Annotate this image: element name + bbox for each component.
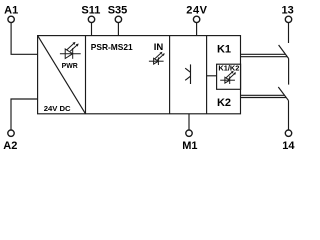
svg-text:PSR-MS21: PSR-MS21 (91, 42, 133, 52)
K2 linkage (lower) (241, 97, 287, 99)
terminal M1 (186, 130, 192, 136)
K1 linkage (upper) (241, 53, 286, 55)
terminal S35 (115, 16, 121, 22)
svg-text:M1: M1 (182, 140, 197, 152)
wire logic to inset box (207, 75, 217, 77)
terminal A1 (8, 16, 14, 22)
svg-text:PWR: PWR (62, 63, 78, 70)
wire between contacts (288, 59, 290, 85)
module outer box (38, 36, 241, 114)
divider logic/relay section (206, 36, 208, 114)
svg-text:S35: S35 (108, 5, 128, 17)
contact K2 blade (278, 87, 288, 101)
relay monitor inset box K1/K2 (217, 64, 241, 89)
wire M1 (188, 114, 190, 130)
wire A2 (11, 99, 38, 130)
wire S35 (117, 23, 119, 36)
wire A1 (11, 23, 37, 55)
svg-text:A1: A1 (4, 5, 18, 17)
svg-text:IN: IN (154, 42, 164, 53)
svg-text:K1/K2: K1/K2 (218, 64, 239, 73)
terminal A2 (8, 130, 14, 136)
terminal S11 (88, 16, 94, 22)
svg-text:24V DC: 24V DC (44, 104, 71, 113)
wire 14 (288, 101, 290, 130)
svg-text:K1: K1 (217, 43, 231, 55)
svg-text:K2: K2 (217, 97, 231, 109)
wire S11 (91, 23, 93, 36)
svg-text:14: 14 (282, 140, 295, 152)
K2 linkage (upper) (241, 94, 285, 96)
phototransistor symbol (185, 64, 190, 84)
LED K1/K2 (220, 71, 236, 84)
svg-text:24V: 24V (186, 5, 207, 17)
terminal 13 (285, 16, 291, 22)
LED IN (149, 52, 165, 65)
divider input/logic section (169, 36, 171, 114)
divider power/input section (85, 36, 87, 114)
wire 13 (288, 23, 290, 43)
contact K1 blade (279, 45, 289, 59)
svg-text:S11: S11 (81, 5, 100, 17)
terminal 24V (193, 16, 199, 22)
terminal 14 (285, 130, 291, 136)
terminal circles (8, 16, 292, 136)
LED PWR (60, 42, 81, 59)
wire 24V (196, 23, 198, 36)
power supply diagonal (38, 36, 86, 114)
svg-text:13: 13 (281, 5, 293, 17)
svg-text:A2: A2 (3, 140, 17, 152)
K1 linkage (lower) (241, 56, 288, 58)
